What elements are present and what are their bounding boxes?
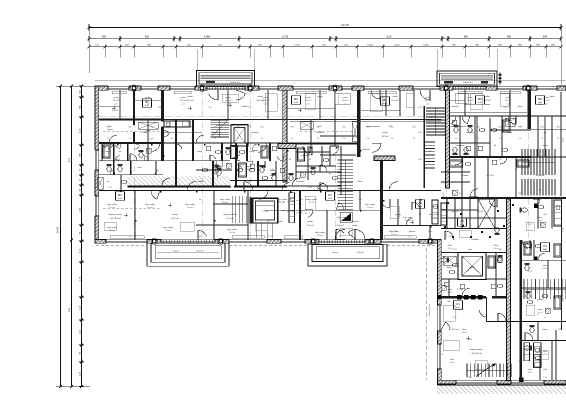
svg-text:960: 960 [413,127,416,129]
entry door arc balcony 1 [198,230,207,236]
double door to balcony 2 (butterfly) [336,229,344,233]
svg-text:2,4: 2,4 [413,138,416,140]
svg-text:4,2 m²: 4,2 m² [493,247,498,250]
windows bottom wall main [106,239,147,244]
svg-text:960: 960 [499,127,502,129]
svg-text:pokoj: pokoj [257,96,263,98]
svg-text:C1: C1 [456,302,460,306]
wall x311 [310,119,312,146]
svg-text:2,4: 2,4 [519,138,522,140]
bathtubs [103,145,110,158]
svg-text:2,4: 2,4 [477,138,480,140]
mid cluster small squares [206,146,211,151]
interior wall x193 [192,120,194,162]
lower wing wall x520 [520,240,523,380]
svg-text:obýv. pokoj: obýv. pokoj [389,231,400,233]
horiz wall y228 right [441,228,508,230]
svg-text:1,75: 1,75 [298,231,302,233]
stairs lower wing bottom [466,364,468,378]
lower wing right partitions [537,199,539,229]
svg-text:pokoj: pokoj [114,97,120,99]
stove/sink squares in counters [291,198,295,202]
mid bathroom cluster partitions [212,161,214,186]
balcony bottom 2 [308,244,387,266]
lower wing horiz wall y260 right [522,259,566,261]
svg-text:2,4: 2,4 [391,138,394,140]
svg-text:2,92: 2,92 [528,271,532,273]
svg-text:625: 625 [558,329,561,331]
svg-text:4+kk: 4+kk [418,206,422,208]
svg-text:1,75: 1,75 [268,236,272,238]
svg-text:960: 960 [455,127,458,129]
svg-text:balkon 6,2: balkon 6,2 [463,82,473,84]
svg-text:4,2 m²: 4,2 m² [449,361,454,364]
svg-text:21,4 m²: 21,4 m² [222,201,229,204]
svg-text:90: 90 [169,187,171,189]
svg-text:960: 960 [317,127,320,129]
columns with circles on top wall [132,86,136,91]
stairs left staircase flight2 [338,181,354,183]
svg-text:2,4: 2,4 [191,138,194,140]
svg-text:14,2 m²: 14,2 m² [425,99,432,102]
wall x465 [464,90,466,116]
wall x400 [399,90,401,116]
svg-text:sklep: sklep [448,245,452,247]
washing machines / misc squares [146,148,151,153]
svg-text:B6: B6 [538,97,542,101]
svg-text:21,4 m²: 21,4 m² [405,219,412,222]
svg-text:2,4: 2,4 [237,138,240,140]
svg-text:koup.: koup. [105,151,111,153]
svg-text:960: 960 [388,187,391,189]
svg-text:850: 850 [158,107,161,109]
svg-text:pokoj: pokoj [264,97,270,99]
svg-text:předsíň: předsíň [362,149,370,151]
svg-text:obýv. pokoj: obýv. pokoj [107,204,118,206]
svg-text:710: 710 [503,107,506,109]
canopy posts below shaft [255,223,257,239]
svg-text:3,725: 3,725 [282,35,289,38]
mid cluster extra walls/arcs (x283-360) [296,171,341,173]
svg-text:chodba: chodba [456,309,464,311]
svg-text:1,2: 1,2 [464,104,467,106]
svg-text:21,4 m²: 21,4 m² [109,229,116,232]
kitchen line right edge lower wing detail squares [535,346,540,351]
wall y129 right [531,128,566,130]
svg-text:625: 625 [538,104,541,106]
interior wall x134 top [133,90,135,125]
svg-text:obýv. pokoj: obýv. pokoj [315,232,326,234]
horizontal axis line y116 [99,115,440,117]
X-braced void room (x478-495) [478,199,495,229]
stairs right band F lower [521,179,523,196]
svg-text:2,4: 2,4 [261,138,264,140]
svg-text:tech.: tech. [138,166,143,169]
svg-text:960: 960 [367,127,370,129]
svg-text:96: 96 [249,107,251,109]
svg-text:4+kk: 4+kk [118,198,122,200]
svg-text:C2: C2 [543,244,547,248]
svg-text:jídelna: jídelna [408,231,416,233]
svg-text:850: 850 [518,361,521,363]
svg-text:2,4: 2,4 [544,317,547,319]
svg-text:+4,5: +4,5 [343,103,347,105]
lower wing horiz wall y290 right [522,287,566,289]
interior wall x162 thick [161,90,164,121]
svg-text:1,012: 1,012 [394,45,400,47]
svg-text:21,4 m²: 21,4 m² [109,206,116,209]
svg-text:2,4: 2,4 [441,354,444,356]
svg-text:obýv. pokoj: obýv. pokoj [107,227,118,229]
svg-text:pokoj: pokoj [307,221,313,223]
svg-text:sklep: sklep [447,267,453,269]
thick partition stubs mid bathroom cluster [212,161,214,186]
svg-text:960: 960 [447,301,450,303]
svg-text:21,4 m²: 21,4 m² [229,231,236,234]
right edge wall x561 [560,92,562,196]
svg-text:+4,5: +4,5 [506,103,510,105]
svg-text:+4,5: +4,5 [181,103,185,105]
svg-text:pokoj: pokoj [506,97,512,99]
svg-text:předsíň: předsíň [296,181,304,183]
svg-text:2,4: 2,4 [343,138,346,140]
svg-text:pokoj: pokoj [484,96,490,98]
svg-text:4+kk: 4+kk [145,105,149,107]
svg-text:pokoj: pokoj [352,225,358,227]
lower wing horiz wall y297 [441,296,486,298]
svg-text:2,4: 2,4 [291,138,294,140]
svg-text:960: 960 [214,127,217,129]
svg-text:4,2 m²: 4,2 m² [537,219,542,222]
left dim outer line [60,86,62,387]
svg-text:4,2 m²: 4,2 m² [467,251,472,254]
wall x490 [489,118,491,157]
svg-text:sklep: sklep [448,289,452,291]
svg-text:14,2 m²: 14,2 m² [263,99,270,102]
svg-text:pokoj: pokoj [382,132,388,134]
dashed ceiling lines [103,207,160,209]
horiz wall y190 long [99,190,441,192]
svg-text:21,4 m²: 21,4 m² [391,233,398,236]
horiz corridor wall y143 [99,142,163,144]
horiz wall y199 right block [441,197,566,199]
svg-text:18,6 m²: 18,6 m² [336,224,344,227]
small white-core double walls (top band partitions) [119,90,121,119]
misc horizontal partitions [196,169,232,171]
right column fixtures lower wing [524,244,532,249]
svg-text:2,4: 2,4 [107,138,110,140]
svg-text:2,4: 2,4 [367,138,370,140]
right apartment partitions [459,116,461,157]
lower wing wall x486 [486,297,488,321]
svg-text:90: 90 [309,159,311,161]
svg-text:šatna: šatna [549,95,555,98]
svg-text:předsíň: předsíň [451,211,459,213]
dashed lines radiating from shaft [278,199,310,202]
svg-text:960: 960 [291,127,294,129]
svg-text:+4,5: +4,5 [426,103,430,105]
interior thick wall x446 [446,90,450,188]
svg-text:2,4: 2,4 [499,138,502,140]
svg-text:pokoj: pokoj [343,97,349,99]
svg-text:960: 960 [107,127,110,129]
svg-text:12,4 m²: 12,4 m² [391,99,399,102]
svg-text:předsíň: předsíň [251,132,259,134]
horiz corridor wall right y157 [450,156,531,158]
exterior wall bottom lower wing [437,380,566,384]
svg-text:obýv. pokoj: obýv. pokoj [403,217,414,219]
svg-text:obýv. pokoj: obýv. pokoj [227,229,238,231]
svg-text:chodba: chodba [196,181,204,183]
interior thick wall x283 [283,90,287,182]
svg-text:710: 710 [108,187,111,189]
svg-text:12,2 m²: 12,2 m² [306,224,314,227]
wardrobes with X [138,122,158,129]
boxed unit labels [143,99,152,107]
svg-text:14,6 m²: 14,6 m² [483,99,491,102]
svg-text:1,15: 1,15 [408,236,412,238]
svg-text:2,4: 2,4 [455,138,458,140]
svg-text:+4,5: +4,5 [114,103,118,105]
svg-text:obývací: obývací [351,221,359,223]
stairs top-left D [211,119,230,121]
svg-text:+4,5: +4,5 [468,103,472,105]
wall x335 [334,90,336,146]
stairs left staircase flight1 [338,159,354,161]
mid-bottom room partitions [299,191,301,240]
svg-text:4+kk: 4+kk [328,198,332,200]
svg-text:14,2 m²: 14,2 m² [543,99,550,102]
svg-text:960: 960 [343,127,346,129]
svg-text:2,4: 2,4 [214,138,217,140]
svg-text:21,4 m²: 21,4 m² [339,219,346,222]
svg-text:obýv. pokoj: obýv. pokoj [277,199,288,201]
window sill tick bands (balcony doors) [160,240,162,244]
horiz wall y180 mid [230,180,287,182]
svg-text:pokoj: pokoj [468,97,474,99]
svg-text:A2: A2 [328,193,332,197]
svg-text:balkon 6,2: balkon 6,2 [230,82,240,84]
svg-text:+4,5: +4,5 [544,103,548,105]
svg-text:14,2 m²: 14,2 m² [113,99,120,102]
svg-text:14,8 m²: 14,8 m² [356,251,363,254]
svg-text:1,752: 1,752 [294,45,300,47]
svg-text:sklep: sklep [450,359,454,361]
right section extra fixtures [454,125,459,133]
svg-text:14,2 m²: 14,2 m² [342,99,349,102]
svg-text:90: 90 [289,159,291,161]
stairs right band G [523,279,525,299]
svg-text:B5: B5 [478,97,482,101]
svg-text:obýv. pokoj: obýv. pokoj [429,214,440,216]
sinks [121,180,126,184]
svg-text:koup.: koup. [249,151,255,153]
svg-text:21,4 m²: 21,4 m² [431,216,438,219]
hatched wall junction x278-296 y143.5 [278,144,296,149]
svg-text:960: 960 [477,127,480,129]
svg-text:4,2 m²: 4,2 m² [447,247,452,250]
windows top wall [108,86,129,91]
svg-text:96: 96 [247,169,249,171]
svg-text:pokoj: pokoj [537,299,543,301]
svg-text:obýv. pokoj: obýv. pokoj [185,204,196,206]
svg-text:14,2 m²: 14,2 m² [505,99,512,102]
left dim middle line [71,86,73,387]
svg-text:300: 300 [428,151,431,153]
radiators under windows [112,91,126,93]
svg-text:960: 960 [129,127,132,129]
svg-text:2,4: 2,4 [317,138,320,140]
interior wall x380 thick lower [380,159,383,240]
svg-text:schodiště: schodiště [535,174,545,177]
svg-text:+4,5: +4,5 [264,103,268,105]
svg-text:625: 625 [183,126,186,128]
balcony top 2 side ticks [499,73,501,85]
svg-text:2,4: 2,4 [171,138,174,140]
svg-text:960: 960 [519,127,522,129]
mid cluster extra fixtures [215,165,220,173]
svg-text:850: 850 [468,377,471,379]
svg-text:zádveří: zádveří [241,106,248,108]
lower wing thick wall x506 [506,199,510,380]
svg-text:př.: př. [162,181,165,183]
svg-text:2,4: 2,4 [209,107,212,109]
horiz corridor wall right y116 [450,115,566,117]
svg-text:16,3 m²: 16,3 m² [196,250,203,253]
svg-text:21,4 m²: 21,4 m² [279,201,286,204]
svg-text:koupelna: koupelna [456,145,465,147]
svg-text:chodba: chodba [471,239,479,241]
svg-text:23,15: 23,15 [341,23,349,27]
svg-text:4,2 m²: 4,2 m² [537,311,542,314]
svg-text:chodba: chodba [316,132,324,134]
svg-text:90: 90 [515,169,517,171]
svg-text:pokoj: pokoj [181,97,187,99]
svg-text:4,2 m²: 4,2 m² [461,331,466,334]
svg-text:1,75: 1,75 [543,377,547,379]
svg-text:pokoj: pokoj [226,97,232,99]
corridor hatch band left [128,176,231,186]
stairs right staircase lower flight [425,141,435,143]
left dim connectors [56,85,95,87]
svg-text:pokoj: pokoj [146,97,152,99]
svg-text:1,2: 1,2 [459,193,462,195]
svg-text:960: 960 [191,127,194,129]
svg-text:710: 710 [448,236,451,238]
svg-text:obýv. pokoj: obýv. pokoj [307,199,318,201]
stairs right staircase upper flight [426,107,446,109]
horiz wall y175 left [99,174,163,176]
exterior wall left main wing [95,86,99,243]
dashed projection line left of lower wing [426,248,428,380]
stairwell wall x424 [423,106,425,188]
interior wall x176 [175,120,177,187]
elevator shaft [458,253,486,280]
svg-text:22,4 m²: 22,4 m² [226,217,234,220]
horiz wall y225 right-mid [383,225,441,227]
windows left wall lower wing [437,305,442,331]
thin overhang line above top wall [95,80,566,82]
svg-text:pokoj: pokoj [380,97,386,99]
windows bottom wall lower wing [456,380,497,385]
svg-text:300: 300 [258,199,261,201]
long extension lines to balconies [196,49,198,70]
entrance shaft (mid-bottom) [250,198,277,223]
svg-text:2,4: 2,4 [557,138,560,140]
furniture in big rooms (light outlines) [222,94,238,102]
svg-text:4,2 m²: 4,2 m² [447,291,452,294]
overhang dashed under main wing [96,245,147,247]
svg-text:obývací pokoj: obývací pokoj [469,349,483,351]
svg-text:sklep: sklep [538,309,542,311]
svg-text:+ kk 28,4 m²: + kk 28,4 m² [109,217,121,220]
svg-text:960: 960 [171,127,174,129]
svg-text:2,92: 2,92 [358,199,362,201]
svg-text:21,4 m²: 21,4 m² [309,201,316,204]
svg-text:+ kk 32,6 m²: + kk 32,6 m² [470,352,482,355]
horiz wall y210 mid [265,209,380,211]
svg-text:960: 960 [237,127,240,129]
toilets [107,164,112,172]
svg-text:14,2 m²: 14,2 m² [225,99,232,102]
svg-text:obývací pokoj: obývací pokoj [108,214,122,216]
svg-text:A3: A3 [418,201,422,205]
svg-text:sklep: sklep [543,351,547,353]
svg-text:4+kk: 4+kk [294,102,298,104]
svg-text:850: 850 [198,236,201,238]
ground hatch below lower wing [437,385,566,394]
svg-text:koup.: koup. [197,151,203,153]
svg-text:šatna: šatna [357,180,363,183]
interior thick wall x357 [357,90,360,157]
svg-text:B1: B1 [118,193,122,197]
svg-text:sklep: sklep [543,145,549,147]
svg-text:96: 96 [459,126,461,128]
svg-text:14,2 m²: 14,2 m² [305,99,312,102]
svg-text:2,92: 2,92 [308,187,312,189]
horiz wall y161 left [99,160,230,162]
black segments on y297 wall [457,295,462,300]
svg-text:710: 710 [428,231,431,233]
svg-text:obklad přesah: obklad přesah [429,304,431,317]
svg-text:chodba: chodba [461,175,469,177]
area cross labels in empty rooms [112,107,116,109]
svg-text:14,2 m²: 14,2 m² [186,99,194,102]
svg-text:959: 959 [102,35,107,38]
svg-text:5,29: 5,29 [387,35,392,38]
svg-text:15,2 m²: 15,2 m² [486,174,494,177]
svg-text:4,2 m²: 4,2 m² [527,371,532,374]
svg-text:14,41: 14,41 [56,226,60,233]
top dimension line 3 [89,46,561,48]
svg-text:946: 946 [543,35,548,38]
interior thick wall x527 [527,90,531,129]
svg-text:př.: př. [249,181,252,183]
svg-text:1,2: 1,2 [544,249,547,251]
extra door arcs mid cluster [216,161,222,167]
svg-text:11,2 m²: 11,2 m² [381,135,388,138]
svg-text:obývací pokoj: obývací pokoj [223,214,237,216]
svg-text:koup.: koup. [545,251,551,253]
left apartment partitions [101,143,102,161]
svg-text:5,7 m²: 5,7 m² [262,210,268,213]
lower wing horiz wall y340 right [522,340,566,342]
columns bottom wall [152,239,156,243]
svg-text:960: 960 [557,127,560,129]
svg-text:14,2 m²: 14,2 m² [379,99,386,102]
svg-text:obýv. pokoj: obýv. pokoj [145,204,156,206]
svg-text:4,2 m²: 4,2 m² [542,353,547,356]
